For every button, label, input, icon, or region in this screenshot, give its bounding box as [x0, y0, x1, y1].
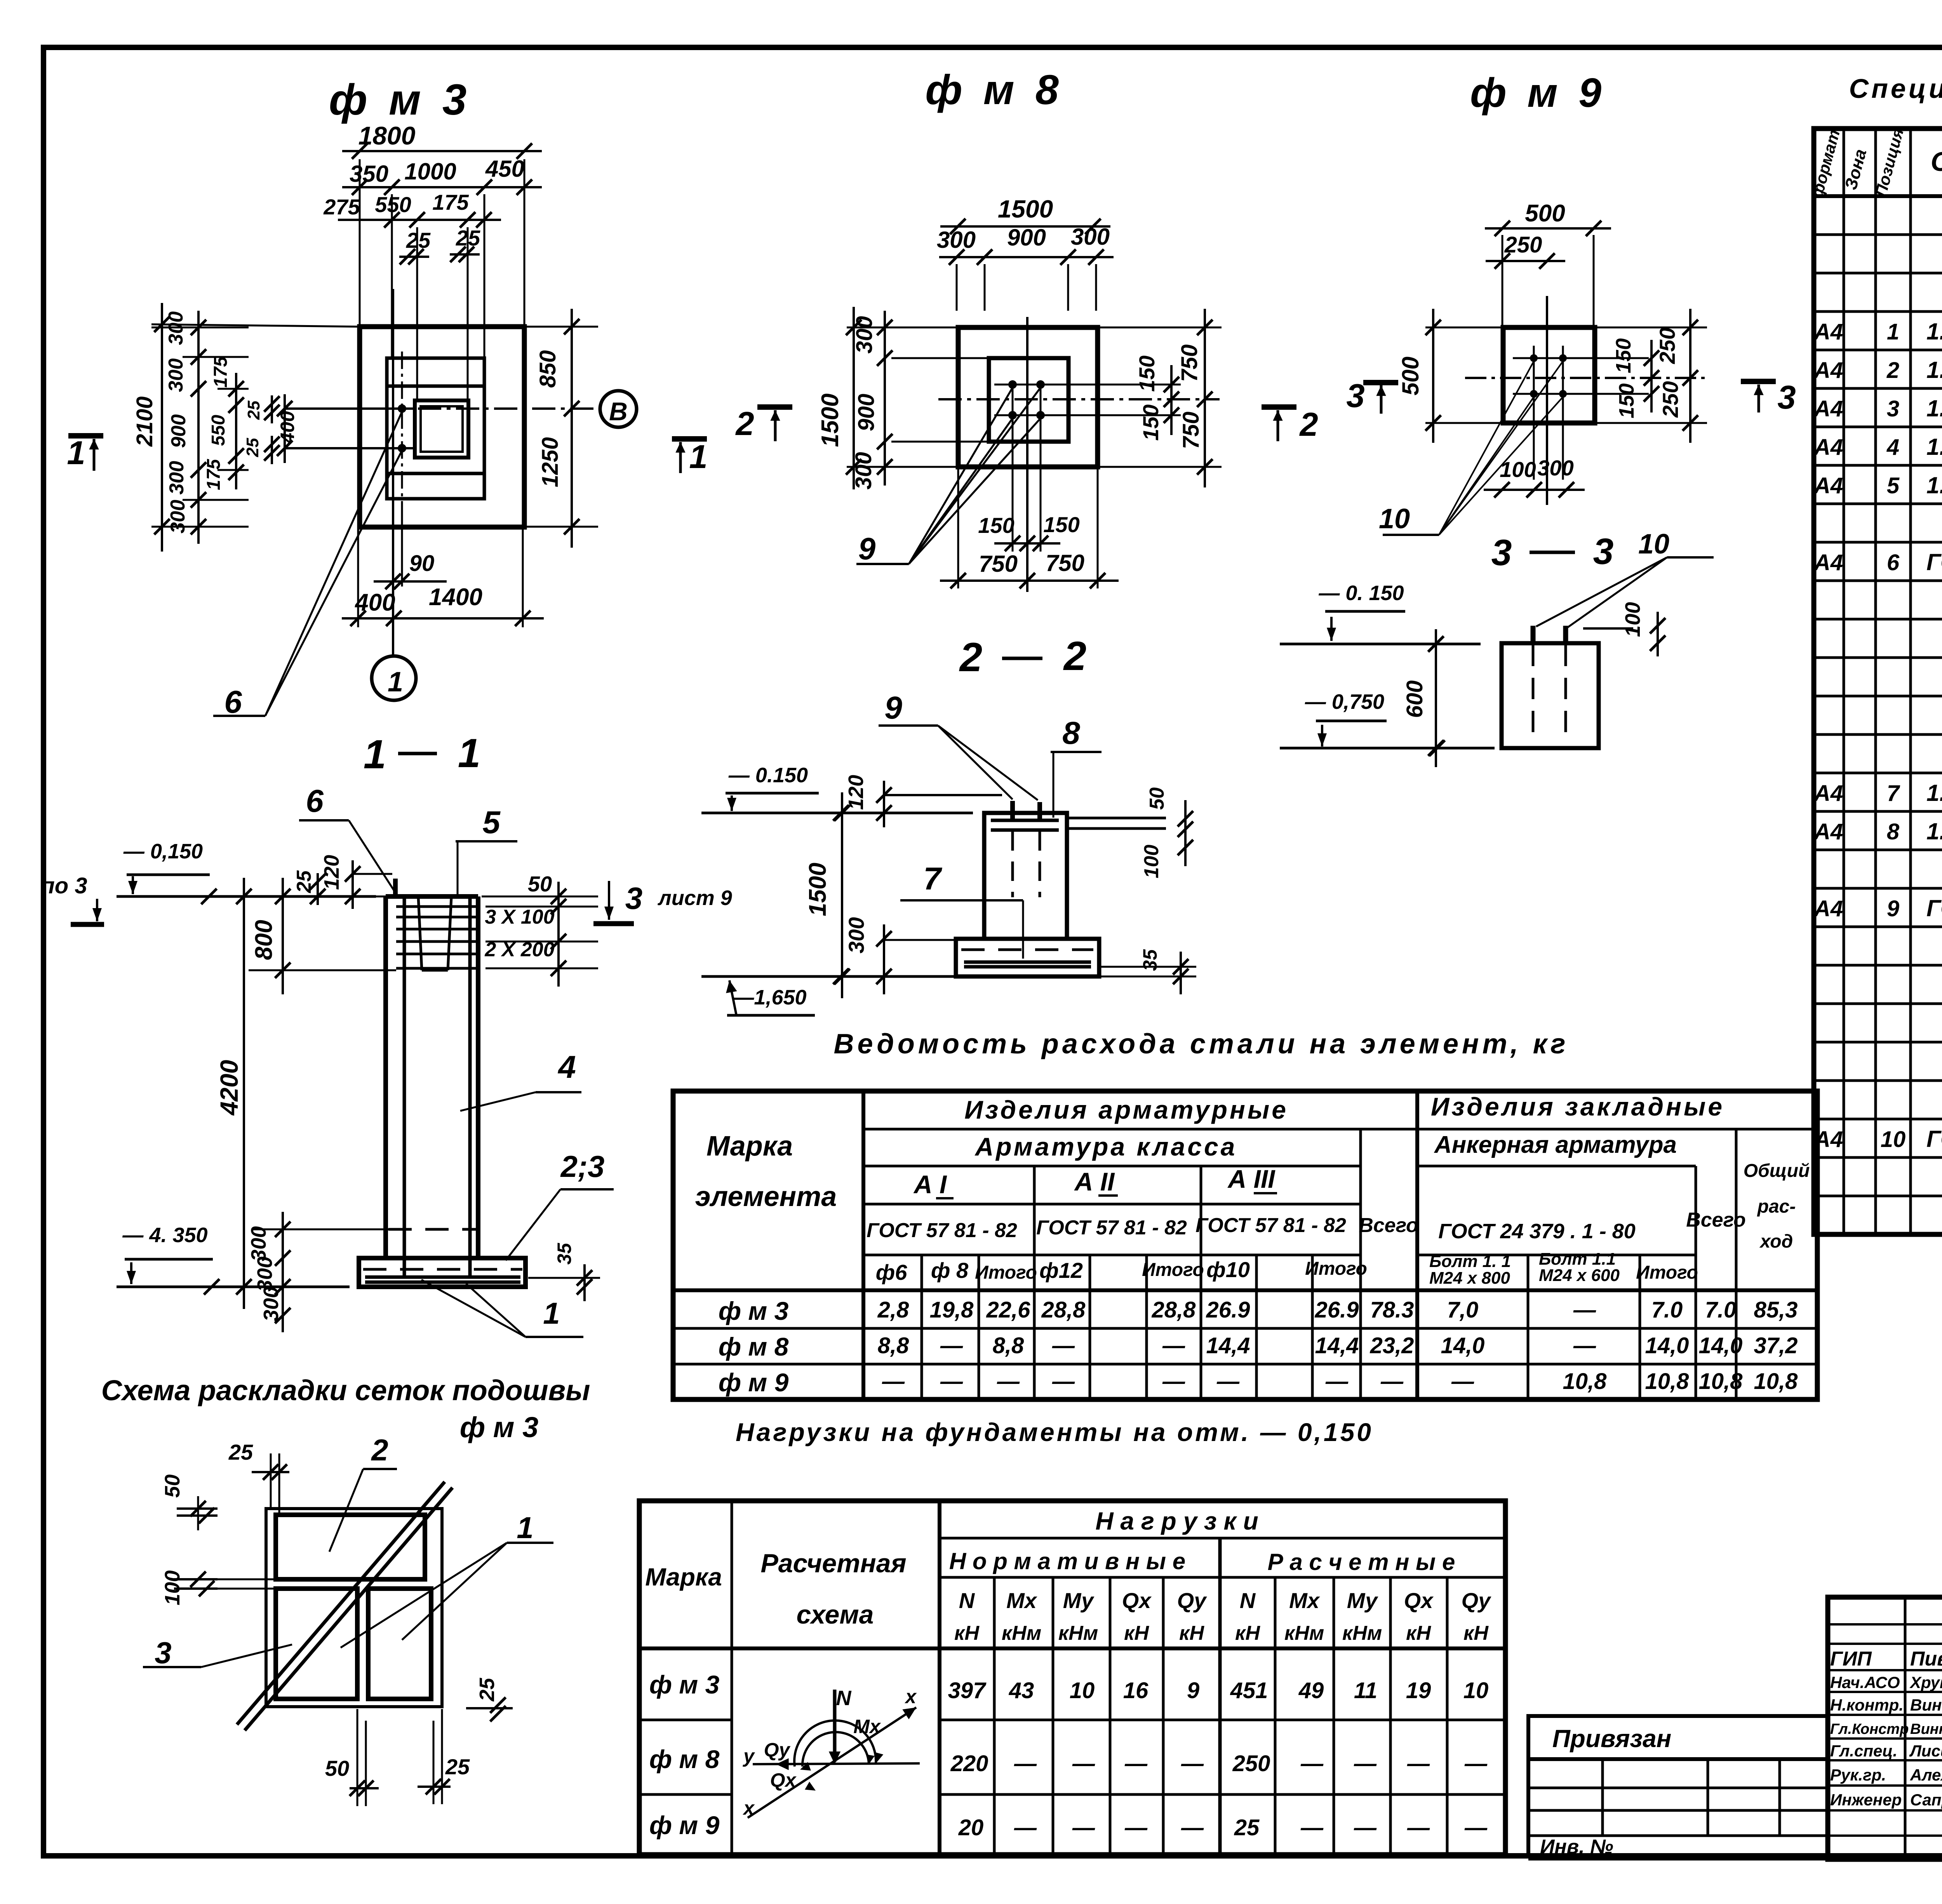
- svg-text:25: 25: [243, 438, 262, 457]
- svg-text:600: 600: [1402, 680, 1427, 718]
- svg-text:Рук.гр.: Рук.гр.: [1830, 1766, 1886, 1784]
- svg-text:500: 500: [1397, 357, 1423, 395]
- svg-text:2,8: 2,8: [877, 1297, 909, 1323]
- fm8 left extension lines: [847, 327, 958, 329]
- svg-text:5: 5: [1887, 473, 1900, 498]
- svg-text:750: 750: [1178, 412, 1204, 449]
- svg-text:ф м 8: ф м 8: [925, 66, 1063, 113]
- fm9 top extension lines: [1502, 235, 1503, 327]
- svg-text:ГОСТ 24379. 1 — 80: ГОСТ 24379. 1 — 80: [1926, 549, 1942, 575]
- svg-text:300: 300: [844, 917, 868, 953]
- svg-text:Нагрузки на фундаменты на: Нагрузки на фундаменты на отм. — 0,150: [736, 1418, 1373, 1446]
- svg-text:6: 6: [1887, 550, 1900, 575]
- mesh layout scheme group: [101, 1374, 590, 1806]
- svg-text:ф м 8: ф м 8: [649, 1745, 720, 1773]
- svg-text:1: 1: [364, 732, 386, 777]
- fm3 axis circle 1: [372, 656, 416, 700]
- svg-text:— 0.150: — 0.150: [728, 764, 808, 787]
- svg-text:—: —: [1407, 1815, 1430, 1840]
- svg-text:50: 50: [528, 872, 552, 896]
- svg-text:35: 35: [553, 1243, 575, 1265]
- svg-text:кНм: кНм: [1342, 1622, 1382, 1645]
- svg-text:25: 25: [228, 1440, 253, 1464]
- svg-text:175: 175: [432, 190, 469, 214]
- fm8 vertical axis line: [1026, 317, 1028, 592]
- svg-text:А4: А4: [1813, 781, 1843, 806]
- svg-text:550: 550: [208, 415, 229, 446]
- svg-text:ф м 9: ф м 9: [719, 1368, 789, 1397]
- svg-text:900: 900: [1007, 225, 1046, 251]
- fm8 bolt row lines: [994, 384, 1181, 386]
- fm8 footing outline: [958, 327, 1098, 467]
- svg-text:кН: кН: [1235, 1622, 1260, 1645]
- svg-text:3: 3: [1346, 378, 1364, 414]
- fm3 anchor plate outer square: [415, 400, 468, 458]
- svg-text:Итого: Итого: [1142, 1260, 1204, 1280]
- section 1-1 footing mesh lines: [365, 1276, 520, 1279]
- fm3 bolt row line lower: [285, 447, 415, 449]
- svg-text:—: —: [1162, 1369, 1185, 1394]
- svg-text:Изделия закладные: Изделия закладные: [1431, 1092, 1724, 1121]
- svg-text:120: 120: [844, 775, 868, 810]
- fm9 horizontal axis line (dash-dot): [1465, 377, 1707, 379]
- svg-text:19: 19: [1406, 1678, 1431, 1703]
- svg-text:37,2: 37,2: [1754, 1333, 1798, 1358]
- section 2-2 embedded plate lines: [991, 819, 1059, 822]
- svg-text:Спецификация фундаментов фм: Спецификация фундаментов фм3, фм8, фм9: [1849, 73, 1942, 104]
- svg-text:Му: Му: [1063, 1588, 1095, 1613]
- section 2-2 pedestal outline: [984, 813, 1067, 939]
- svg-text:—: —: [1162, 1333, 1185, 1358]
- svg-text:300: 300: [167, 500, 189, 534]
- svg-text:А4: А4: [1813, 435, 1843, 460]
- svg-text:Всего: Всего: [1686, 1209, 1746, 1231]
- svg-text:кН: кН: [1124, 1622, 1149, 1645]
- svg-text:А4: А4: [1813, 1127, 1843, 1152]
- privyazan block group: [1528, 1716, 1828, 1859]
- svg-text:250: 250: [1658, 381, 1683, 418]
- svg-text:1: 1: [388, 667, 403, 698]
- svg-text:7: 7: [1887, 781, 1900, 806]
- svg-text:ГОСТ 24379. 1 — 80: ГОСТ 24379. 1 — 80: [1926, 895, 1942, 921]
- section 3-3 bolt dashed lines: [1532, 645, 1535, 735]
- loads scheme diagram moment arcs: [794, 1721, 876, 1767]
- svg-text:1. 410 - 2 Вып. 1: 1. 410 - 2 Вып. 1: [1926, 780, 1942, 806]
- fm3 footing outline: [360, 327, 524, 527]
- svg-text:1250: 1250: [538, 437, 563, 487]
- fm3 anchor bolt lower: [398, 444, 406, 453]
- fm3 bolt row line upper: [285, 407, 415, 410]
- svg-text:М24 х 600: М24 х 600: [1539, 1266, 1620, 1285]
- fm3 vertical axis line 1: [392, 289, 394, 655]
- svg-text:—: —: [1216, 1369, 1240, 1394]
- svg-text:2: 2: [1886, 358, 1899, 383]
- svg-text:А4: А4: [1813, 550, 1843, 575]
- svg-text:2: 2: [959, 635, 982, 680]
- svg-text:400: 400: [354, 589, 395, 616]
- svg-text:2;3: 2;3: [560, 1149, 605, 1183]
- fm8 bottom extension lines: [957, 467, 959, 588]
- fm8 bolt column lines: [1012, 385, 1014, 552]
- title block left row lines: [1828, 1623, 1942, 1626]
- svg-text:1: 1: [1887, 319, 1899, 345]
- svg-text:120: 120: [320, 855, 343, 890]
- svg-text:450: 450: [485, 156, 524, 182]
- svg-text:43: 43: [1009, 1678, 1034, 1703]
- svg-text:ход: ход: [1759, 1231, 1793, 1252]
- svg-text:800: 800: [251, 920, 277, 960]
- svg-text:Н о р м а т и в н ы е: Н о р м а т и в н ы е: [949, 1548, 1185, 1574]
- svg-text:у: у: [742, 1745, 755, 1767]
- svg-text:14,0: 14,0: [1699, 1333, 1743, 1358]
- svg-text:10: 10: [1881, 1127, 1906, 1152]
- fm3 section mark 1 right: [672, 436, 707, 442]
- section 1-1 top level line: [117, 895, 376, 898]
- fm9 section mark 3 right: [1741, 379, 1776, 384]
- fm3 pedestal top band line: [387, 385, 484, 388]
- svg-text:Марка: Марка: [645, 1563, 722, 1591]
- svg-text:Н а г р у з к и: Н а г р у з к и: [1095, 1507, 1258, 1535]
- svg-text:19,8: 19,8: [930, 1297, 974, 1323]
- section 2-2 bottom level line: [701, 975, 961, 978]
- svg-text:ф6: ф6: [876, 1260, 908, 1284]
- svg-text:—: —: [1354, 1815, 1377, 1840]
- section 3-3 pedestal outline: [1502, 643, 1599, 748]
- svg-text:100: 100: [1140, 845, 1163, 879]
- svg-text:—: —: [940, 1333, 963, 1358]
- section 1-1 column outline: [383, 896, 388, 1258]
- svg-text:3: 3: [625, 881, 643, 915]
- svg-text:ф м 3: ф м 3: [460, 1411, 539, 1443]
- section 1-1 anchor bolt stub: [393, 879, 398, 896]
- svg-text:150: 150: [1612, 338, 1635, 373]
- loads table outer frame: [639, 1501, 1505, 1855]
- svg-text:А4: А4: [1813, 819, 1843, 844]
- svg-text:ГИП: ГИП: [1830, 1648, 1872, 1670]
- svg-text:Арматура класса: Арматура класса: [974, 1132, 1237, 1161]
- svg-text:N: N: [836, 1686, 852, 1710]
- svg-text:14,0: 14,0: [1441, 1333, 1485, 1358]
- fm9 right extension lines: [1595, 327, 1707, 329]
- svg-text:1. 410 - 2 Вып. 1: 1. 410 - 2 Вып. 1: [1926, 357, 1942, 383]
- svg-text:ф м 3: ф м 3: [329, 75, 471, 124]
- loads table horizontal lines: [940, 1537, 1505, 1540]
- svg-text:Привязан: Привязан: [1552, 1725, 1672, 1753]
- fm9 bolt column lines: [1533, 346, 1535, 480]
- section 1-1 column dashed line: [388, 1228, 476, 1231]
- fm3 left tick extension lines: [151, 327, 249, 329]
- svg-text:1: 1: [458, 731, 480, 776]
- svg-text:ГОСТ 24 379 . 1 - 80: ГОСТ 24 379 . 1 - 80: [1438, 1220, 1636, 1243]
- svg-text:Qх: Qх: [770, 1769, 797, 1791]
- fm3 section mark 1 left: [68, 433, 103, 439]
- fm3 pedestal outline: [387, 358, 484, 499]
- svg-text:—: —: [1014, 1751, 1037, 1776]
- section 2-2 bolt top level line: [884, 794, 1002, 796]
- svg-text:1. 412 - 1 / 77 Вып. 3: 1. 412 - 1 / 77 Вып. 3: [1926, 472, 1942, 498]
- svg-text:6: 6: [224, 684, 242, 720]
- svg-text:Схема раскладки сеток подош: Схема раскладки сеток подошвы: [101, 1374, 590, 1406]
- svg-text:300: 300: [937, 227, 976, 253]
- svg-text:—: —: [1052, 1333, 1075, 1358]
- svg-text:—: —: [940, 1369, 963, 1394]
- svg-text:Итого: Итого: [1636, 1262, 1698, 1283]
- svg-text:1: 1: [689, 439, 707, 475]
- fm3 horizontal axis line B (dash-dot): [342, 407, 599, 410]
- svg-text:2100: 2100: [132, 396, 157, 447]
- svg-text:23,2: 23,2: [1370, 1333, 1414, 1358]
- svg-text:1000: 1000: [404, 158, 456, 184]
- svg-text:400: 400: [277, 411, 298, 444]
- svg-text:—: —: [1300, 1751, 1324, 1776]
- mesh scheme diagonal double line: [245, 1488, 452, 1730]
- svg-text:—: —: [1464, 1815, 1488, 1840]
- svg-text:300: 300: [165, 461, 188, 495]
- svg-text:ГОСТ 24379. 1 - 80: ГОСТ 24379. 1 - 80: [1926, 1126, 1942, 1152]
- svg-text:кНм: кНм: [1058, 1622, 1098, 1645]
- title block outer frame: [1828, 1597, 1942, 1859]
- svg-text:Гл.спец.: Гл.спец.: [1830, 1742, 1897, 1760]
- svg-text:4200: 4200: [215, 1060, 243, 1116]
- svg-text:Мх: Мх: [1289, 1588, 1321, 1613]
- svg-text:1: 1: [543, 1296, 560, 1330]
- section 2-2 plate lines extending right: [1068, 817, 1166, 820]
- section 2-2 anchor bolt stubs: [1010, 801, 1015, 820]
- section 1-1 footing dashed line: [363, 1268, 522, 1271]
- svg-text:150: 150: [1043, 512, 1079, 537]
- svg-text:8,8: 8,8: [993, 1333, 1024, 1358]
- svg-text:2: 2: [1299, 406, 1318, 443]
- svg-text:25: 25: [293, 870, 315, 893]
- svg-text:Qх: Qх: [1122, 1588, 1152, 1613]
- svg-text:50: 50: [325, 1756, 349, 1780]
- svg-text:Винклер: Винклер: [1910, 1696, 1942, 1714]
- svg-text:1: 1: [517, 1511, 533, 1545]
- svg-text:9: 9: [1887, 896, 1899, 921]
- svg-text:50: 50: [1146, 787, 1168, 810]
- fm8 anchor bolts: [1008, 380, 1017, 389]
- loads table vertical lines: [731, 1501, 733, 1855]
- svg-text:49: 49: [1298, 1678, 1324, 1703]
- steel consumption table group: [673, 1029, 1817, 1399]
- svg-text:—1,650: —1,650: [733, 986, 806, 1009]
- svg-text:Общий: Общий: [1744, 1161, 1810, 1181]
- svg-text:Мх: Мх: [1006, 1588, 1038, 1613]
- svg-text:150: 150: [1135, 355, 1159, 392]
- svg-text:150: 150: [1138, 404, 1163, 440]
- svg-text:900: 900: [854, 394, 879, 432]
- svg-text:2: 2: [735, 406, 754, 442]
- svg-text:Всего: Всего: [1359, 1214, 1418, 1237]
- svg-text:20: 20: [958, 1815, 984, 1840]
- svg-text:Изделия арматурные: Изделия арматурные: [964, 1095, 1288, 1124]
- fm3 axis circle B: [600, 391, 637, 427]
- fm3 pedestal bottom band line: [387, 472, 484, 475]
- svg-text:1. 410 - 2 Вып. 1: 1. 410 - 2 Вып. 1: [1926, 395, 1942, 421]
- svg-text:—: —: [1072, 1815, 1095, 1840]
- svg-text:150: 150: [1615, 383, 1638, 418]
- svg-text:7.0: 7.0: [1651, 1297, 1683, 1323]
- svg-text:10: 10: [1638, 529, 1669, 560]
- svg-text:10,8: 10,8: [1645, 1369, 1690, 1394]
- svg-text:ф12: ф12: [1039, 1258, 1083, 1283]
- svg-text:220: 220: [950, 1751, 988, 1776]
- svg-text:25: 25: [406, 228, 431, 252]
- svg-text:схема: схема: [797, 1600, 874, 1629]
- specification row lines: [1814, 233, 1942, 236]
- svg-text:25: 25: [244, 400, 263, 420]
- steel table outer frame: [673, 1091, 1817, 1399]
- svg-text:Расчетная: Расчетная: [760, 1549, 906, 1578]
- svg-text:—: —: [1464, 1751, 1488, 1776]
- svg-text:3: 3: [1887, 396, 1899, 421]
- svg-text:397: 397: [948, 1678, 987, 1703]
- section 2-2 group: [701, 634, 1196, 1015]
- svg-text:550: 550: [375, 192, 411, 217]
- svg-text:—: —: [882, 1369, 905, 1394]
- section 3-3 top level line: [1280, 643, 1481, 646]
- fm3 anchor plate inner square: [421, 406, 463, 452]
- svg-text:—: —: [997, 1369, 1020, 1394]
- fm9 plan view group: [1346, 70, 1796, 535]
- svg-text:Марка: Марка: [706, 1131, 793, 1162]
- svg-text:А4: А4: [1813, 896, 1843, 921]
- svg-text:3: 3: [1593, 531, 1614, 572]
- section 1-1 bottom level line: [117, 1286, 350, 1288]
- mesh scheme net 2 rectangle: [276, 1515, 425, 1579]
- specification outer frame: [1814, 129, 1942, 1234]
- svg-text:ГОСТ 57 81 - 82: ГОСТ 57 81 - 82: [1036, 1217, 1187, 1239]
- svg-text:—: —: [1300, 1815, 1324, 1840]
- section 3-3 anchor bolt stubs: [1531, 626, 1536, 643]
- svg-text:7.0: 7.0: [1705, 1297, 1737, 1323]
- svg-text:175: 175: [211, 356, 231, 388]
- fm8 horizontal axis line (dash-dot): [938, 398, 1220, 400]
- fm9 bolt row lines: [1513, 357, 1649, 359]
- svg-text:— 0,750: — 0,750: [1305, 690, 1384, 714]
- fm3 top extension lines: [359, 159, 361, 327]
- svg-text:Хрупало: Хрупало: [1909, 1673, 1942, 1692]
- svg-text:Гл.Констр: Гл.Констр: [1830, 1721, 1909, 1737]
- svg-text:1. 410 - 2 Вып. 1: 1. 410 - 2 Вып. 1: [1926, 318, 1942, 345]
- svg-text:Сапрошина: Сапрошина: [1910, 1791, 1942, 1809]
- mesh scheme outer sheet outline: [266, 1509, 442, 1707]
- fm9 anchor bolts: [1530, 354, 1538, 362]
- svg-text:300: 300: [1071, 224, 1110, 250]
- svg-text:—: —: [1014, 1815, 1037, 1840]
- svg-text:850: 850: [535, 350, 560, 388]
- svg-text:—: —: [1052, 1369, 1075, 1394]
- svg-text:1500: 1500: [817, 393, 844, 447]
- svg-text:Лисичкин: Лисичкин: [1909, 1742, 1942, 1760]
- svg-text:500: 500: [1525, 200, 1565, 227]
- section 3-3 leader to position 10: [1536, 557, 1667, 627]
- fm8 top extension lines: [956, 264, 958, 311]
- svg-text:14,4: 14,4: [1315, 1333, 1359, 1358]
- svg-text:7,0: 7,0: [1447, 1297, 1479, 1323]
- svg-text:ф10: ф10: [1206, 1257, 1250, 1282]
- svg-text:14,4: 14,4: [1206, 1333, 1250, 1358]
- fm8 plan view group: [735, 66, 1318, 592]
- svg-text:ГОСТ 57 81 - 82: ГОСТ 57 81 - 82: [1195, 1214, 1346, 1237]
- svg-text:8: 8: [1887, 819, 1900, 844]
- svg-text:4: 4: [557, 1049, 576, 1085]
- svg-text:28,8: 28,8: [1041, 1297, 1086, 1323]
- section 1-1 mesh cage bucket: [418, 897, 422, 970]
- svg-text:А4: А4: [1813, 358, 1843, 383]
- svg-text:9: 9: [884, 690, 902, 726]
- svg-text:3: 3: [1491, 532, 1512, 573]
- svg-text:М24 х 800: М24 х 800: [1429, 1269, 1510, 1288]
- steel table vertical lines: [861, 1091, 865, 1399]
- svg-text:—: —: [1124, 1815, 1148, 1840]
- svg-text:Инв. №: Инв. №: [1540, 1836, 1613, 1858]
- svg-text:кН: кН: [954, 1622, 980, 1645]
- mesh scheme net 1 rectangle: [368, 1589, 431, 1699]
- svg-text:3 X 100: 3 X 100: [485, 906, 554, 928]
- svg-text:— 4. 350: — 4. 350: [122, 1224, 207, 1247]
- svg-text:300: 300: [165, 359, 187, 392]
- svg-text:Н.контр.: Н.контр.: [1830, 1696, 1904, 1714]
- svg-text:—: —: [1072, 1751, 1095, 1776]
- svg-text:—: —: [1573, 1333, 1596, 1358]
- svg-text:N: N: [1240, 1588, 1256, 1613]
- svg-text:25: 25: [445, 1754, 470, 1779]
- svg-text:А4: А4: [1813, 473, 1843, 498]
- svg-text:10: 10: [1379, 503, 1410, 534]
- svg-text:1400: 1400: [429, 584, 482, 611]
- svg-text:3: 3: [155, 1636, 171, 1670]
- svg-text:1500: 1500: [998, 195, 1053, 223]
- title block group: [1828, 1597, 1942, 1887]
- svg-text:Итого: Итого: [975, 1262, 1037, 1283]
- svg-text:ф м 3: ф м 3: [719, 1297, 789, 1325]
- svg-text:Инженер: Инженер: [1830, 1791, 1902, 1809]
- section 2-2 footing mesh lines: [964, 961, 1091, 964]
- mesh scheme net 3 rectangle: [276, 1589, 357, 1699]
- svg-text:1500: 1500: [804, 863, 831, 916]
- svg-text:9: 9: [1187, 1678, 1199, 1703]
- fm8 leader to position 9: [909, 388, 1013, 564]
- svg-text:—: —: [1181, 1815, 1204, 1840]
- svg-text:—: —: [1407, 1751, 1430, 1776]
- svg-text:Алехова: Алехова: [1910, 1766, 1942, 1784]
- fm3 anchor bolt upper: [398, 404, 406, 413]
- fm8 section mark 2 right: [1262, 404, 1296, 410]
- title block signature column lines: [1904, 1597, 1907, 1859]
- svg-text:2: 2: [1063, 634, 1086, 679]
- svg-text:150: 150: [978, 513, 1014, 538]
- svg-text:5: 5: [482, 805, 501, 840]
- svg-text:16: 16: [1123, 1678, 1148, 1703]
- svg-text:28,8: 28,8: [1152, 1297, 1196, 1323]
- svg-text:Qу: Qу: [1177, 1588, 1208, 1613]
- svg-text:750: 750: [979, 551, 1018, 577]
- svg-text:750: 750: [1177, 345, 1202, 382]
- fm9 pedestal outline: [1503, 327, 1595, 423]
- svg-text:кНм: кНм: [1002, 1622, 1041, 1645]
- svg-text:Qу: Qу: [1462, 1588, 1492, 1613]
- fm9 vertical axis line: [1546, 296, 1548, 505]
- fm3 bolt column dash-dot line: [401, 352, 403, 511]
- svg-text:В: В: [609, 397, 628, 426]
- svg-text:11: 11: [1354, 1678, 1377, 1703]
- svg-text:Пивторак: Пивторак: [1910, 1648, 1942, 1670]
- svg-text:Му: Му: [1347, 1588, 1378, 1613]
- specification column lines: [1843, 129, 1845, 1234]
- section 1-1 mesh cage horizontals: [396, 905, 476, 908]
- fm9 section mark 3 left: [1363, 380, 1398, 385]
